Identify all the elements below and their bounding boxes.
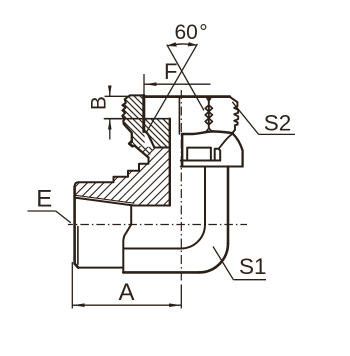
hatching of elbow body (slash direction) xyxy=(0,70,348,210)
B arrow up xyxy=(108,119,112,130)
svg-text:A: A xyxy=(119,279,135,306)
corner line bottom flare xyxy=(206,128,213,132)
B dim line upper xyxy=(109,86,111,97)
S1 leader xyxy=(213,247,233,280)
small rect 2 xyxy=(215,149,221,161)
stud wavy left edge + chamfer xyxy=(122,95,130,124)
inner corner arc xyxy=(181,225,205,249)
vertical centerline xyxy=(180,90,182,281)
svg-text:S1: S1 xyxy=(239,254,267,279)
A left ext xyxy=(71,262,73,309)
section axis solid line xyxy=(178,97,180,134)
F arrow xyxy=(144,82,156,86)
bore top line xyxy=(134,205,170,207)
F dim line xyxy=(144,83,210,85)
thread relief notch xyxy=(129,141,132,146)
counterbore floor line xyxy=(104,118,169,120)
corner line top wedge xyxy=(206,97,211,101)
E-port end face xyxy=(75,187,79,268)
nut bottom-right corner chamfer xyxy=(232,130,235,134)
svg-text:60: 60 xyxy=(175,21,198,44)
nut hex corner line xyxy=(208,97,210,128)
corner diamond 3 xyxy=(205,118,212,124)
cone floor line xyxy=(154,147,169,149)
F ext line xyxy=(143,74,145,95)
arrowheads xyxy=(72,42,197,307)
horizontal centerline xyxy=(68,224,247,226)
60 deg X lines xyxy=(167,45,204,111)
B upper ext line xyxy=(105,95,130,97)
cone apex diagonal xyxy=(144,131,154,148)
stud neck profile xyxy=(124,124,149,158)
nut hex bottom edge right part xyxy=(213,131,233,133)
B arrow down xyxy=(108,86,112,97)
taper line T1 xyxy=(75,198,134,206)
axis edge thick segment xyxy=(181,134,183,167)
S2 leader xyxy=(232,102,258,135)
B dim line lower xyxy=(109,119,111,140)
end-face chamfer line (view half) xyxy=(77,227,79,265)
A right ext xyxy=(180,285,182,309)
nut skirt right xyxy=(233,133,243,166)
skirt inner flare diagonal xyxy=(219,134,233,149)
outer corner arc xyxy=(199,243,228,272)
skirt/block bottom line xyxy=(181,166,243,168)
E underline xyxy=(28,210,56,212)
A arrow right xyxy=(169,303,181,307)
60deg arc arrow left xyxy=(167,42,177,46)
A arrow left xyxy=(72,303,84,307)
boss top-left rounded corner xyxy=(75,182,79,186)
dimension group xyxy=(28,44,296,309)
inner horizontal line xyxy=(124,248,181,250)
corner diamond 1 xyxy=(205,105,212,111)
E leader xyxy=(56,211,71,223)
svg-text:B: B xyxy=(88,96,111,110)
thread root line xyxy=(75,195,134,203)
bore end wall xyxy=(130,206,132,225)
small rect 1 xyxy=(187,148,211,161)
S2 underline xyxy=(259,133,295,135)
svg-text:S2: S2 xyxy=(264,110,292,135)
svg-text:F: F xyxy=(164,59,177,84)
A dim line xyxy=(72,304,181,306)
60deg arc arrow right xyxy=(188,42,198,46)
nut right zigzag edge xyxy=(234,102,238,130)
vertical leg left edge xyxy=(204,167,206,225)
stud top edge xyxy=(130,94,144,96)
corner diamond 2 xyxy=(205,112,212,118)
svg-text:E: E xyxy=(36,186,52,213)
cone mouth vertical xyxy=(142,95,145,131)
60 deg arc xyxy=(168,44,197,46)
S1 underline xyxy=(233,279,266,281)
svg-text:°: ° xyxy=(199,21,207,44)
nut hex bottom edge left part xyxy=(182,131,213,134)
top edge counterbore + nut xyxy=(144,95,230,98)
white sliver left of cone diagonal xyxy=(145,132,154,146)
block bottom edge xyxy=(123,271,199,274)
hatching of stud part (backslash direction) xyxy=(80,90,334,170)
shoulder line under rects xyxy=(181,160,220,162)
stud bottom edge xyxy=(78,267,122,269)
bore left wall vertical xyxy=(169,119,171,206)
staircase xyxy=(79,158,149,183)
step between boss and block xyxy=(123,225,131,273)
vertical leg right edge xyxy=(227,167,230,244)
nut right chamfer xyxy=(230,97,238,102)
centerlines xyxy=(68,90,247,281)
